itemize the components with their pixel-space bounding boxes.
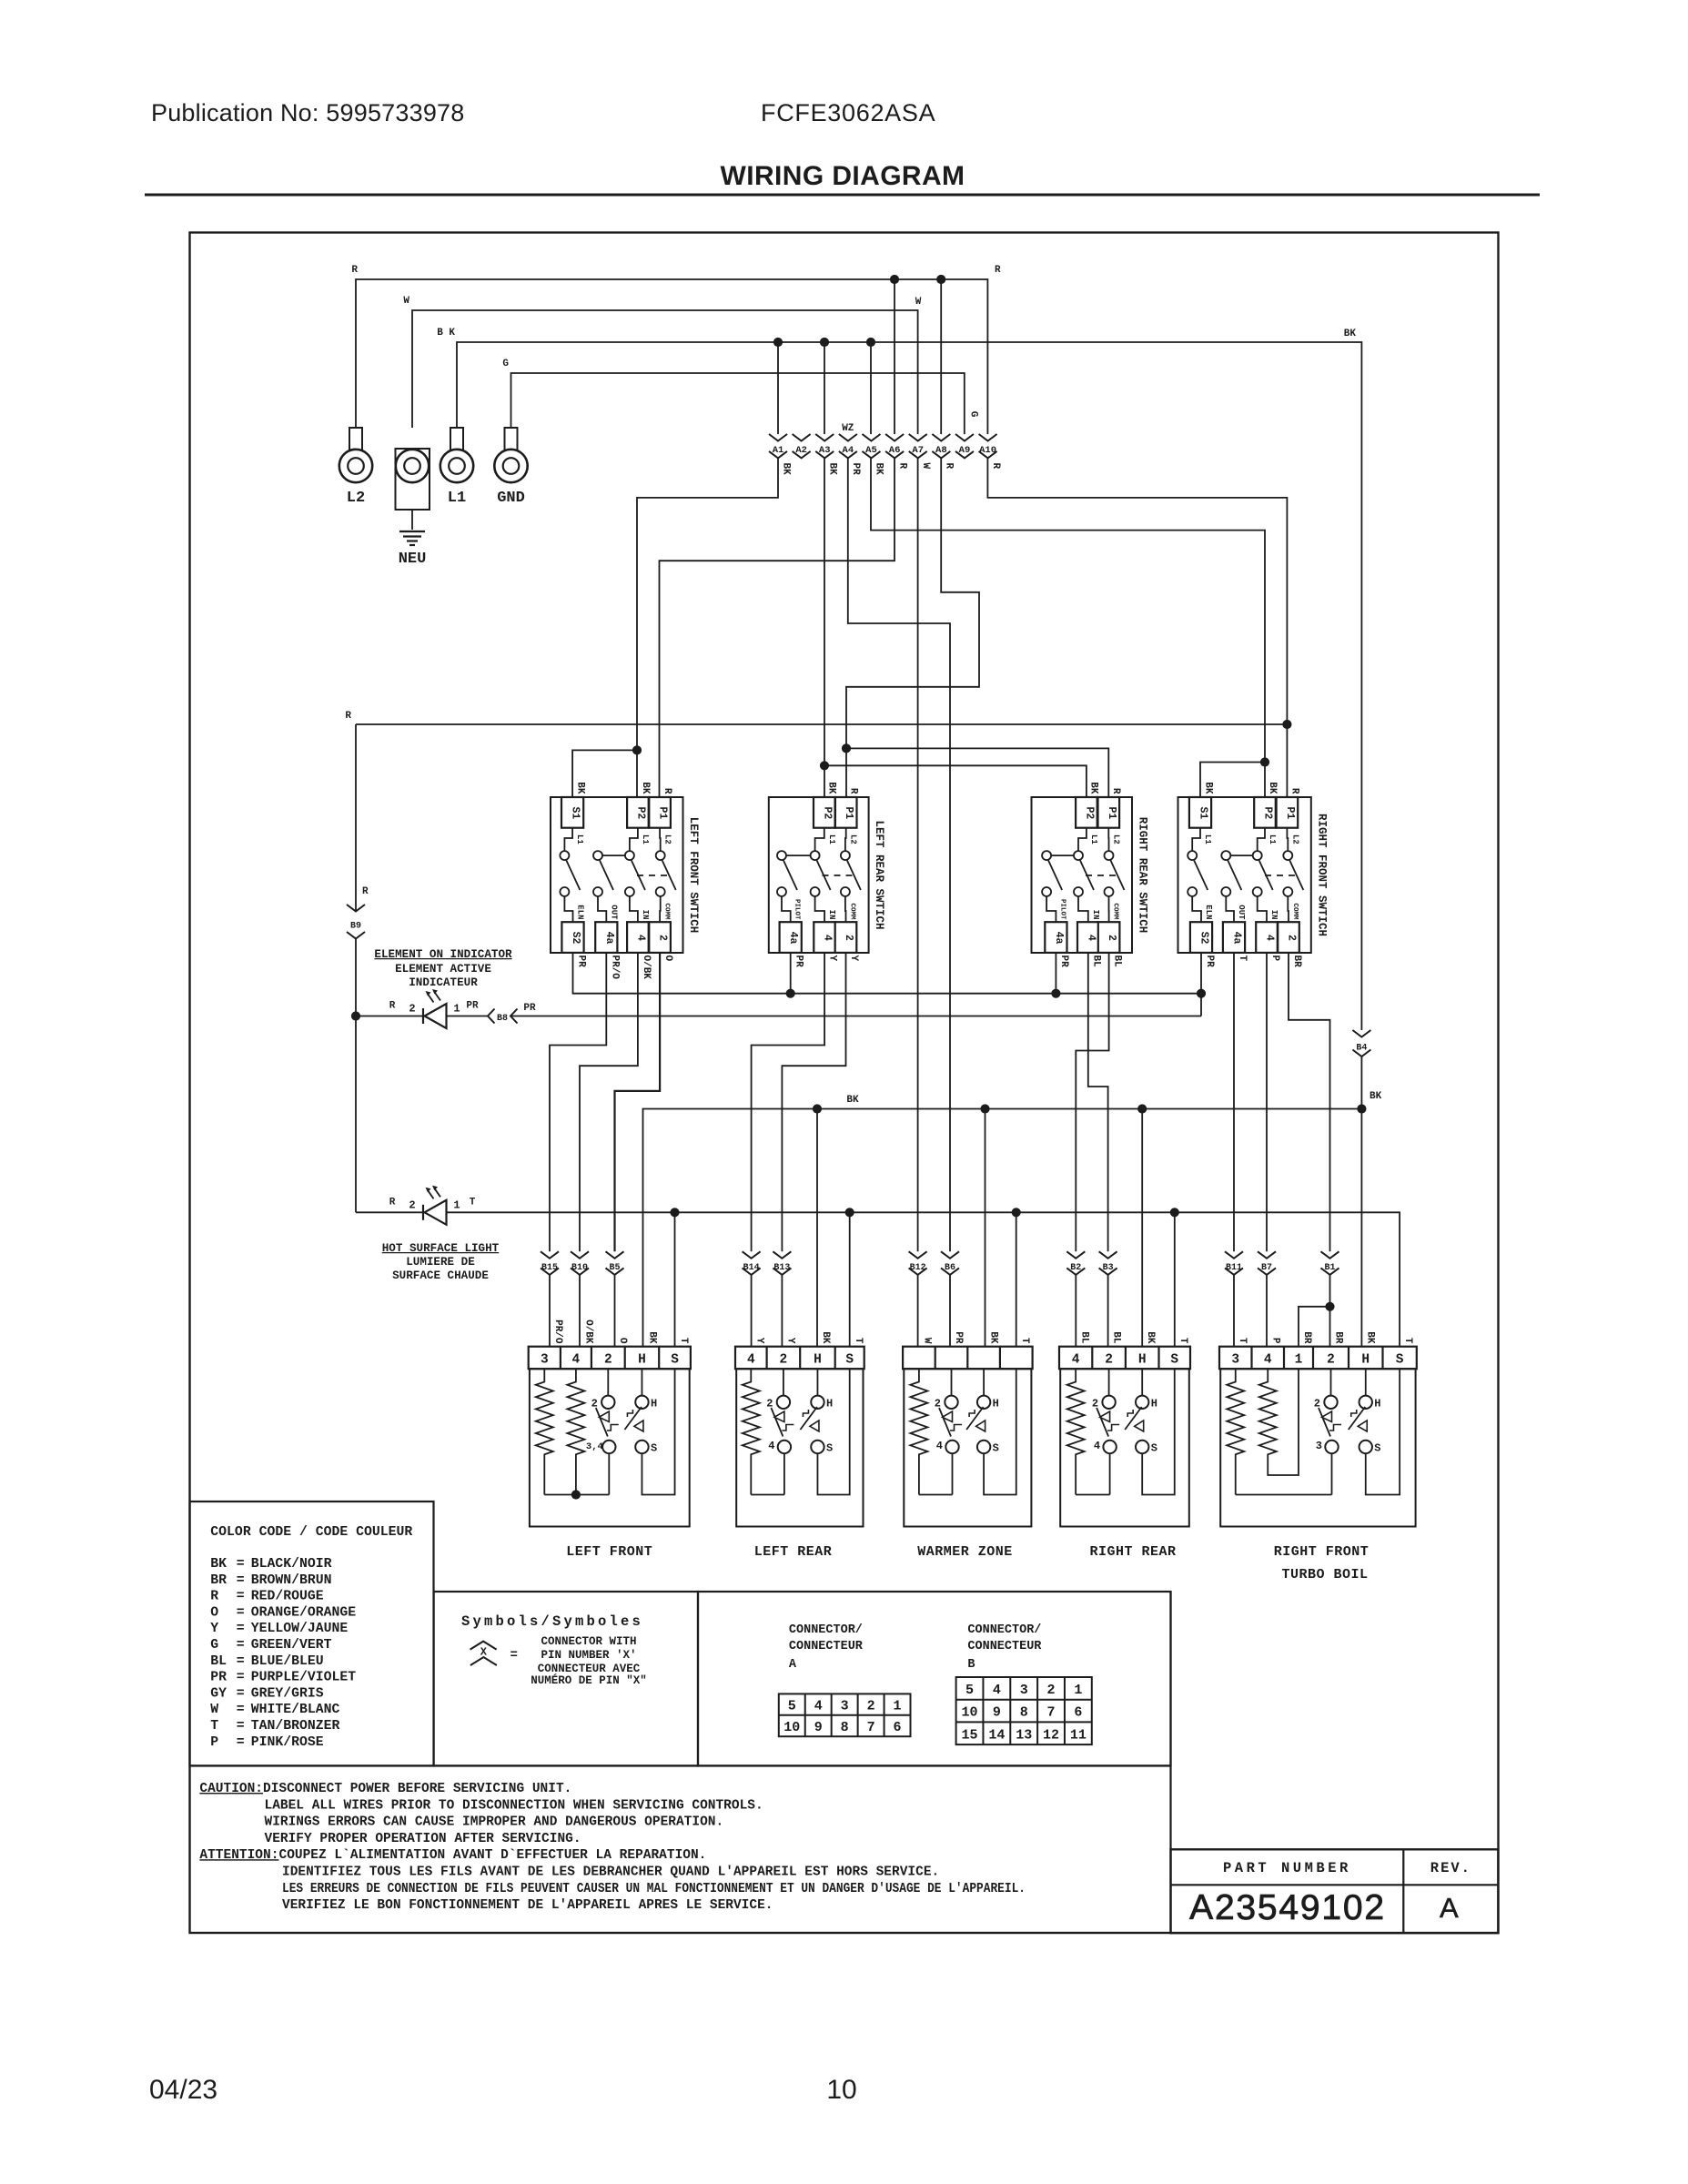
wire RIGHT FRONT 4 to B7 to element 4: [1266, 953, 1268, 1251]
svg-text:W: W: [403, 296, 409, 307]
svg-text:2: 2: [1314, 1398, 1320, 1410]
svg-text:W: W: [922, 1338, 933, 1344]
svg-text:DISCONNECT POWER BEFORE SERVIC: DISCONNECT POWER BEFORE SERVICING UNIT.: [263, 1782, 571, 1796]
svg-text:COUPEZ L`ALIMENTATION AVANT D`: COUPEZ L`ALIMENTATION AVANT D`EFFECTUER …: [279, 1848, 707, 1863]
svg-text:B K: B K: [437, 328, 455, 339]
switch RIGHT REAR contact lower: [1074, 887, 1083, 896]
element resistor at 632.9: [567, 1369, 584, 1494]
wire RIGHT FRONT 2 to B1 to element 1 and 2: [1289, 953, 1330, 1251]
svg-text:3: 3: [1316, 1440, 1322, 1452]
connector B8 inline: [488, 1009, 495, 1024]
switch RIGHT FRONT terminal 4: [1256, 922, 1278, 953]
wire T bus to element S terminals: [447, 1212, 1400, 1346]
switch RIGHT FRONT contact link: [1230, 854, 1252, 856]
wire NEU to ground: [411, 510, 413, 530]
svg-text:BK: BK: [1145, 1331, 1156, 1344]
svg-text:L2: L2: [347, 490, 365, 507]
svg-text:T: T: [470, 1197, 476, 1208]
connector pin A4: [839, 434, 857, 441]
wire A8 R to LEFT REAR P1 and RIGHT REAR P1: [846, 458, 979, 797]
svg-text:SURFACE CHAUDE: SURFACE CHAUDE: [392, 1269, 489, 1282]
svg-text:LEFT REAR SWTICH: LEFT REAR SWTICH: [873, 820, 885, 929]
node PR / left rear 4a: [786, 989, 795, 998]
switch RIGHT FRONT contact upper: [1253, 851, 1262, 860]
switch LEFT FRONT wire contact to terminal / label ELN: [564, 896, 572, 922]
svg-text:H: H: [814, 1353, 822, 1368]
svg-text:2: 2: [1106, 935, 1117, 941]
wire PR bus from LEFT FRONT S2: [573, 953, 1202, 994]
wire A4 PR down to B6 / warmer zone: [848, 458, 950, 1251]
svg-text:L1: L1: [448, 490, 466, 507]
switch LEFT FRONT blade: [632, 861, 645, 891]
connector pin A9: [955, 434, 974, 441]
svg-text:P1: P1: [1284, 806, 1296, 819]
node junction S1/P2 left front: [632, 745, 642, 754]
svg-text:T: T: [1178, 1338, 1188, 1344]
svg-text:2: 2: [843, 935, 854, 941]
svg-text:PR: PR: [850, 463, 861, 476]
svg-text:S2: S2: [1198, 932, 1210, 945]
svg-text:RIGHT FRONT SWTICH: RIGHT FRONT SWTICH: [1315, 814, 1328, 936]
svg-text:S: S: [1396, 1353, 1404, 1368]
svg-text:BK: BK: [988, 1331, 999, 1344]
wire LEFT REAR 2 to B13 to element 2: [782, 953, 845, 1251]
svg-text:4: 4: [936, 1440, 943, 1452]
svg-text:BR: BR: [210, 1573, 227, 1588]
svg-text:2: 2: [591, 1398, 598, 1410]
switch RIGHT REAR contact upper: [1042, 851, 1051, 860]
svg-text:GREEN/VERT: GREEN/VERT: [251, 1638, 332, 1653]
node BK / right rear H: [1137, 1104, 1147, 1113]
element LEFT REAR S return wire: [817, 1369, 849, 1494]
divider vertical right of caution text: [1169, 1592, 1171, 1933]
svg-text:4a: 4a: [603, 932, 615, 945]
svg-text:2: 2: [1092, 1398, 1098, 1410]
svg-text:3: 3: [541, 1353, 549, 1368]
svg-text:TAN/BRONZER: TAN/BRONZER: [251, 1719, 340, 1734]
switch RIGHT FRONT blade: [1228, 861, 1241, 891]
svg-text:YELLOW/JAUNE: YELLOW/JAUNE: [251, 1622, 349, 1636]
switch RIGHT REAR terminal 4a: [1045, 922, 1066, 953]
svg-text:O: O: [617, 1338, 628, 1344]
switch RIGHT FRONT terminal P1: [1277, 797, 1299, 828]
wire A10 R to RIGHT FRONT P1 and R mid bus: [987, 458, 1287, 797]
svg-text:CONNECTEUR: CONNECTEUR: [967, 1640, 1042, 1653]
wire A6 R to LEFT FRONT P1: [660, 458, 895, 797]
svg-text:R: R: [362, 886, 369, 897]
svg-text:1: 1: [453, 1198, 460, 1211]
terminal NEU ring lug in block: [396, 449, 430, 510]
switch LEFT REAR contact lower: [811, 887, 820, 896]
element limiter arrow: [1358, 1421, 1367, 1431]
svg-text:P: P: [210, 1735, 218, 1750]
element LEFT REAR terminal strip: [735, 1347, 864, 1370]
svg-text:Y: Y: [827, 955, 838, 962]
element cycling switch arrow: [1322, 1411, 1332, 1422]
element cycling switch heater squiggle: [607, 1425, 619, 1431]
switch LEFT FRONT contact upper: [593, 851, 602, 860]
switch LEFT REAR contact lower: [841, 887, 850, 896]
connector B5: [606, 1251, 624, 1259]
wire LEFT REAR 4 to B14 to element 4: [752, 953, 825, 1251]
svg-text:H: H: [826, 1398, 833, 1410]
LED emission arrows: [428, 994, 434, 1003]
svg-text:L1: L1: [827, 834, 836, 844]
LED cathode bar: [422, 1008, 424, 1024]
svg-text:IN: IN: [827, 910, 836, 920]
connector B14: [743, 1251, 761, 1259]
svg-text:COMM: COMM: [1112, 903, 1119, 920]
switch RIGHT FRONT blade: [1194, 861, 1208, 891]
element cycling switch arrow: [943, 1411, 953, 1422]
svg-text:B: B: [967, 1658, 975, 1672]
svg-text:2: 2: [409, 1198, 415, 1211]
svg-text:4: 4: [993, 1683, 1001, 1698]
svg-text:PR/O: PR/O: [552, 1319, 563, 1344]
connector B6: [941, 1251, 959, 1259]
svg-text:9: 9: [993, 1705, 1001, 1721]
svg-text:7: 7: [867, 1720, 875, 1735]
svg-text:Y: Y: [210, 1622, 218, 1636]
switch RIGHT FRONT contact lower: [1253, 887, 1262, 896]
switch LEFT REAR coupling dashed: [823, 875, 854, 876]
svg-text:L1: L1: [1089, 834, 1098, 844]
svg-text:O/BK: O/BK: [641, 955, 652, 980]
svg-text:ELN: ELN: [1204, 905, 1213, 919]
switch RIGHT FRONT terminal S1: [1189, 797, 1211, 828]
switch RIGHT FRONT blade: [1289, 861, 1303, 891]
svg-text:BK: BK: [1344, 329, 1357, 339]
wire LEFT FRONT 2 to B5 to element 2: [615, 953, 661, 1251]
switch RIGHT FRONT terminal S2: [1190, 922, 1212, 953]
element RIGHT FRONT bottom bus: [1236, 1494, 1332, 1496]
svg-text:R: R: [662, 788, 672, 794]
wire RIGHT REAR 4 to B3 to element 2: [1088, 953, 1108, 1251]
svg-text:2: 2: [1286, 935, 1298, 941]
symbols box: [434, 1592, 698, 1766]
svg-text:A23549102: A23549102: [1189, 1888, 1386, 1927]
svg-text:15: 15: [962, 1727, 978, 1743]
svg-text:BR: BR: [1333, 1331, 1344, 1344]
element limiter blade: [1349, 1407, 1366, 1430]
element limiter arrow: [634, 1421, 643, 1431]
connector B12: [909, 1251, 927, 1259]
part number header divider: [1171, 1884, 1499, 1886]
connector B11: [1225, 1251, 1243, 1259]
svg-text:=: =: [237, 1654, 245, 1669]
svg-text:LUMIERE DE: LUMIERE DE: [406, 1256, 475, 1269]
main border frame: [190, 233, 1499, 1934]
connector B13: [773, 1251, 791, 1259]
switch RIGHT FRONT wire terminal to contact / label L1: [1258, 828, 1265, 851]
svg-text:2: 2: [867, 1698, 875, 1714]
switch RIGHT REAR terminal 4: [1077, 922, 1099, 953]
wire LEFT FRONT 4a to B15 to element 3: [550, 953, 606, 1251]
svg-text:BK: BK: [647, 1331, 658, 1344]
node T / right rear S: [1170, 1208, 1179, 1217]
svg-text:A: A: [789, 1658, 797, 1672]
connector B4 inline: [1352, 1030, 1370, 1037]
switch LEFT FRONT contact lower: [593, 887, 602, 896]
switch RIGHT FRONT contact upper: [1283, 851, 1292, 860]
connector pin A3: [815, 434, 834, 441]
svg-text:PR: PR: [523, 1003, 536, 1014]
element LEFT REAR body: [736, 1369, 863, 1526]
element limiter arrow: [1135, 1421, 1144, 1431]
element cycling switch blade: [771, 1408, 783, 1437]
svg-text:P2: P2: [634, 806, 646, 819]
switch RIGHT REAR blade: [1048, 861, 1062, 891]
svg-text:4: 4: [634, 935, 646, 941]
element cycling switch contacts 2/3: [1330, 1369, 1332, 1395]
switch LEFT FRONT wire terminal to contact / label L1: [564, 828, 572, 851]
svg-text:=: =: [237, 1671, 245, 1685]
svg-text:LES ERREURS DE CONNECTION DE F: LES ERREURS DE CONNECTION DE FILS PEUVEN…: [282, 1882, 1026, 1896]
svg-text:1: 1: [453, 1003, 460, 1016]
svg-text:TURBO BOIL: TURBO BOIL: [1281, 1567, 1368, 1582]
svg-text:2: 2: [409, 1003, 415, 1016]
wire A1 BK to LEFT FRONT P2: [637, 458, 778, 797]
svg-text:PR/O: PR/O: [610, 955, 621, 980]
element limiter blade: [1125, 1407, 1142, 1430]
node BK / right side vertical: [1357, 1104, 1366, 1113]
svg-text:2: 2: [604, 1353, 612, 1368]
svg-text:=: =: [237, 1605, 245, 1620]
element cycling switch blade: [939, 1408, 951, 1437]
svg-text:S: S: [1374, 1442, 1380, 1455]
svg-text:10: 10: [962, 1705, 978, 1721]
wire RIGHT FRONT 4a to B11 to element 3: [1233, 953, 1235, 1251]
element cycling switch blade: [1319, 1408, 1330, 1437]
svg-text:T: T: [1237, 955, 1248, 962]
svg-text:CAUTION:: CAUTION:: [199, 1782, 263, 1796]
svg-text:5: 5: [965, 1683, 974, 1698]
svg-text:LABEL ALL WIRES PRIOR TO DISCO: LABEL ALL WIRES PRIOR TO DISCONNECTION W…: [265, 1798, 763, 1813]
svg-text:BK: BK: [210, 1557, 227, 1572]
switch LEFT REAR blade: [783, 861, 797, 891]
element cycling switch arrow: [599, 1411, 609, 1422]
svg-text:S1: S1: [570, 806, 581, 819]
svg-text:REV.: REV.: [1430, 1860, 1471, 1876]
switch LEFT FRONT blade: [600, 861, 613, 891]
svg-text:2: 2: [780, 1353, 788, 1368]
svg-text:COMM: COMM: [849, 903, 856, 920]
svg-text:PILOT: PILOT: [1058, 899, 1066, 920]
node junction A8/P1 left rear: [842, 743, 851, 753]
switch RIGHT REAR wire contact to terminal / label IN: [1078, 896, 1088, 922]
svg-text:RIGHT FRONT: RIGHT FRONT: [1274, 1544, 1370, 1560]
svg-text:S: S: [1151, 1442, 1157, 1455]
svg-text:4: 4: [822, 935, 834, 941]
switch RIGHT FRONT body: [1178, 797, 1311, 953]
svg-text:BK: BK: [1088, 782, 1099, 794]
switch RIGHT REAR wire contact to terminal / label COMM: [1108, 896, 1110, 922]
switch RIGHT FRONT blade: [1259, 861, 1273, 891]
svg-text:R: R: [1110, 788, 1121, 794]
svg-text:CONNECTEUR: CONNECTEUR: [789, 1640, 864, 1653]
element LEFT FRONT S return wire: [642, 1369, 674, 1494]
switch LEFT FRONT contact lower: [625, 887, 634, 896]
terminal GND ring lug: [505, 428, 518, 451]
svg-text:A: A: [1440, 1892, 1459, 1924]
connector B3: [1099, 1251, 1117, 1259]
element cycling switch contacts 2/4: [783, 1369, 784, 1395]
svg-text:L1: L1: [1268, 834, 1277, 844]
switch RIGHT REAR contact lower: [1042, 887, 1051, 896]
wire G top bus: GND to A9: [511, 373, 965, 434]
svg-text:R: R: [345, 711, 351, 722]
switch LEFT FRONT contact upper: [560, 851, 569, 860]
svg-text:S: S: [651, 1442, 657, 1455]
svg-text:L1: L1: [1203, 834, 1212, 844]
wire R left vertical to indicators: [355, 724, 357, 912]
svg-text:2: 2: [1327, 1353, 1335, 1368]
switch RIGHT REAR wire terminal to contact / label L2: [1107, 828, 1109, 851]
element limiter squiggle: [1127, 1410, 1133, 1417]
connector pin A1: [769, 434, 787, 441]
svg-text:P2: P2: [821, 806, 833, 819]
symbol connector chevrons: [470, 1642, 497, 1650]
svg-text:NEU: NEU: [399, 551, 427, 568]
svg-text:PILOT: PILOT: [793, 899, 801, 920]
svg-text:BK: BK: [1267, 782, 1278, 794]
element cycling switch arrow: [1100, 1411, 1110, 1422]
svg-text:=: =: [237, 1686, 245, 1701]
connector pin A6: [885, 434, 904, 441]
svg-text:14: 14: [988, 1727, 1005, 1743]
switch LEFT REAR terminal 4: [814, 922, 835, 953]
svg-text:R: R: [944, 463, 955, 470]
svg-text:ATTENTION:: ATTENTION:: [199, 1848, 278, 1863]
switch RIGHT REAR body: [1032, 797, 1133, 953]
switch LEFT FRONT terminal 4: [627, 922, 649, 953]
element resistor at 1182.15: [1067, 1369, 1085, 1494]
svg-text:T: T: [1402, 1338, 1413, 1344]
svg-text:BK: BK: [846, 1095, 859, 1106]
svg-text:S2: S2: [570, 932, 581, 945]
ground symbol NEU: [399, 531, 425, 532]
switch LEFT REAR terminal 2: [835, 922, 857, 953]
svg-text:BL: BL: [1091, 955, 1102, 968]
switch LEFT FRONT contact lower: [656, 887, 665, 896]
svg-text:T: T: [853, 1338, 864, 1344]
svg-text:4: 4: [572, 1353, 581, 1368]
node T / left rear S: [845, 1208, 854, 1217]
svg-text:6: 6: [894, 1720, 902, 1735]
element RIGHT FRONT terminal strip: [1219, 1347, 1417, 1370]
LED emission arrows: [428, 1189, 434, 1198]
svg-text:T: T: [1019, 1338, 1030, 1344]
svg-text:8: 8: [1020, 1705, 1028, 1721]
svg-text:3: 3: [1020, 1683, 1028, 1698]
LED triangle: [425, 1200, 447, 1225]
svg-text:6: 6: [1074, 1705, 1082, 1721]
switch LEFT REAR wire contact to terminal / label PILOT: [782, 896, 791, 922]
switch RIGHT REAR blade: [1080, 861, 1094, 891]
svg-text:OUT: OUT: [609, 905, 618, 920]
svg-text:G: G: [210, 1638, 218, 1653]
svg-text:PR: PR: [1058, 955, 1069, 968]
svg-text:H: H: [1151, 1398, 1157, 1410]
node BK-A3 tap: [820, 338, 829, 347]
svg-text:04/23: 04/23: [149, 2075, 217, 2105]
svg-text:1: 1: [1074, 1683, 1082, 1698]
switch LEFT FRONT terminal S2: [561, 922, 583, 953]
element limiter switch contacts H/S: [983, 1369, 985, 1396]
switch LEFT FRONT terminal P2: [627, 797, 649, 828]
switch RIGHT REAR contact upper: [1074, 851, 1083, 860]
svg-text:BL: BL: [210, 1654, 227, 1669]
svg-text:P: P: [1270, 1338, 1281, 1344]
switch LEFT FRONT blade: [566, 861, 580, 891]
svg-text:G: G: [502, 359, 509, 369]
wire B8 PR to right front S2: [510, 1016, 1201, 1017]
svg-text:BK: BK: [820, 1331, 831, 1344]
element limiter squiggle: [627, 1410, 632, 1417]
element LEFT REAR bottom bus: [751, 1494, 784, 1496]
element RIGHT REAR bottom bus: [1076, 1494, 1109, 1496]
svg-text:4: 4: [1264, 935, 1276, 941]
svg-text:NUMÉRO DE PIN "X": NUMÉRO DE PIN "X": [531, 1673, 647, 1687]
svg-text:IN: IN: [1269, 910, 1279, 920]
svg-text:INDICATEUR: INDICATEUR: [409, 976, 478, 989]
element WARMER ZONE bottom bus: [919, 1494, 953, 1496]
element WARMER ZONE S return wire: [984, 1369, 1016, 1494]
node BK / left rear H: [813, 1104, 822, 1113]
svg-text:R: R: [1289, 788, 1300, 794]
svg-text:RED/ROUGE: RED/ROUGE: [251, 1590, 324, 1604]
svg-text:ELN: ELN: [576, 905, 585, 919]
connector B9: [347, 905, 365, 912]
svg-text:4: 4: [1264, 1353, 1272, 1368]
element cycling switch heater squiggle: [950, 1425, 962, 1431]
switch RIGHT FRONT coupling dashed: [1265, 875, 1298, 876]
switch LEFT REAR blade: [847, 861, 861, 891]
svg-text:BR: BR: [1301, 1331, 1312, 1344]
element cycling switch contacts 2/3,4: [607, 1369, 609, 1395]
element RIGHT REAR S return wire: [1142, 1369, 1175, 1494]
svg-text:GND: GND: [497, 490, 525, 507]
switch LEFT REAR contact upper: [811, 851, 820, 860]
switch LEFT REAR terminal P1: [835, 797, 857, 828]
switch LEFT REAR contact upper: [777, 851, 786, 860]
element cycling switch heater squiggle: [1107, 1425, 1119, 1431]
wire BK top bus: L1 to right side down through B4: [457, 342, 1361, 1030]
svg-text:R: R: [389, 1197, 396, 1208]
svg-text:=: =: [237, 1638, 245, 1653]
svg-text:CONNECTOR WITH: CONNECTOR WITH: [541, 1635, 636, 1648]
wire BK down to right front H: [1360, 1109, 1362, 1347]
svg-text:Y: Y: [785, 1338, 796, 1344]
svg-text:13: 13: [1016, 1727, 1032, 1743]
switch RIGHT REAR contact upper: [1105, 851, 1114, 860]
svg-text:COMM: COMM: [1291, 903, 1299, 920]
svg-text:H: H: [638, 1353, 646, 1368]
svg-text:L1: L1: [575, 834, 584, 844]
element limiter blade: [624, 1407, 642, 1430]
title rule: [145, 194, 1540, 197]
switch LEFT REAR contact upper: [841, 851, 850, 860]
svg-text:VERIFIEZ LE BON FONCTIONNEMENT: VERIFIEZ LE BON FONCTIONNEMENT DE L'APPA…: [282, 1898, 773, 1913]
svg-text:=: =: [237, 1703, 245, 1717]
switch LEFT FRONT terminal S1: [561, 797, 583, 828]
switch RIGHT REAR terminal P2: [1076, 797, 1097, 828]
svg-text:IN: IN: [641, 910, 650, 920]
connector pin A5: [862, 434, 880, 441]
node BK-A5 tap: [866, 338, 875, 347]
svg-text:=: =: [510, 1648, 517, 1663]
svg-text:S: S: [671, 1353, 679, 1368]
